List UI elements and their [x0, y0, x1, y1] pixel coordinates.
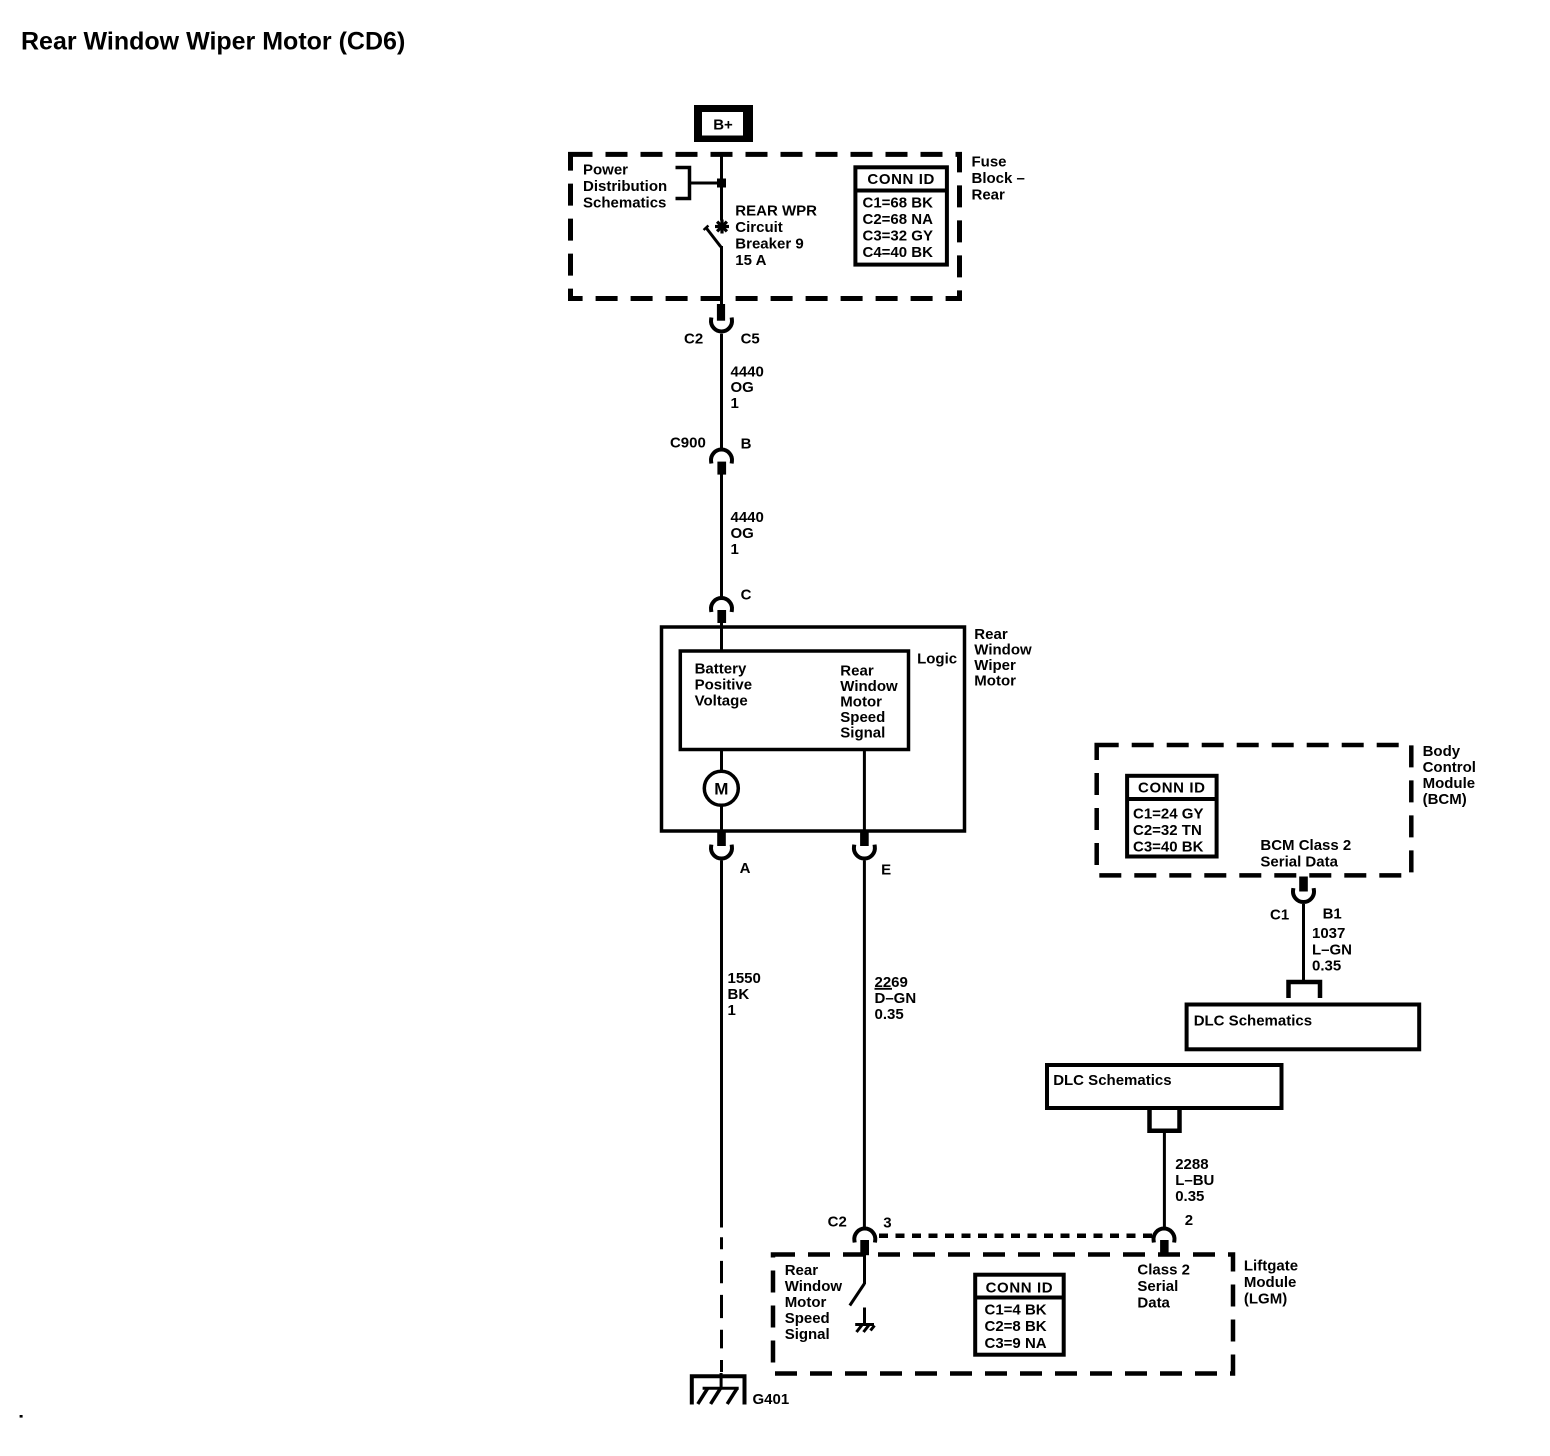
svg-text:4440: 4440: [731, 509, 764, 526]
LGM internal ground: [855, 1308, 874, 1333]
Rear Window Motor Speed Signal label (LGM): [785, 1262, 843, 1343]
Body Control Module (BCM) label: [1423, 743, 1476, 808]
svg-text:Power: Power: [583, 162, 628, 179]
svg-text:0.35: 0.35: [1175, 1188, 1204, 1205]
svg-text:2288: 2288: [1175, 1156, 1208, 1173]
wire label 4440 OG 1 (second): [731, 509, 764, 558]
svg-text:BCM Class 2: BCM Class 2: [1260, 837, 1351, 854]
svg-text:C2=32 TN: C2=32 TN: [1133, 822, 1202, 839]
rear window wiper motor box: [662, 627, 965, 831]
connector C1 pin B1 (bar + cup): [1270, 877, 1342, 924]
svg-text:C4=40 BK: C4=40 BK: [863, 244, 934, 261]
svg-text:1037: 1037: [1312, 925, 1345, 942]
svg-text:Block –: Block –: [972, 170, 1025, 187]
svg-text:C2: C2: [828, 1214, 847, 1231]
svg-text:Signal: Signal: [840, 725, 885, 742]
connector pin 2 (cap + bar): [1154, 1229, 1175, 1253]
DLC Schematics box (upper): [1187, 1005, 1420, 1050]
Rear Window Wiper Motor label: [974, 626, 1032, 690]
svg-text:C2=68 NA: C2=68 NA: [863, 211, 934, 228]
Power Distribution Schematics label: [583, 162, 667, 212]
svg-text:C3=40 BK: C3=40 BK: [1133, 838, 1204, 855]
svg-text:C900: C900: [670, 435, 706, 452]
svg-text:DLC Schematics: DLC Schematics: [1053, 1072, 1171, 1089]
svg-text:L–GN: L–GN: [1312, 942, 1352, 959]
svg-text:G401: G401: [753, 1391, 790, 1408]
DLC Schematics box (lower): [1047, 1065, 1282, 1108]
svg-text:Distribution: Distribution: [583, 178, 667, 195]
Liftgate Module (LGM) label: [1244, 1258, 1298, 1308]
wire box top to logic box: [720, 628, 723, 652]
svg-text:C1=24 GY: C1=24 GY: [1133, 806, 1203, 823]
wire label 1550 BK 1: [728, 970, 761, 1019]
connector C900 pin B (cap + bar): [670, 435, 752, 475]
LGM switch wire: [863, 1255, 866, 1284]
connector pin E (bar + cup): [854, 833, 891, 879]
wire label 2269 D-GN 0.35: [875, 974, 917, 1023]
svg-text:15 A: 15 A: [735, 252, 766, 269]
wire C2/C5 to C900: [720, 334, 723, 450]
svg-text:CONN ID: CONN ID: [867, 171, 935, 188]
svg-text:Positive: Positive: [695, 677, 753, 694]
wire E to LGM connector C2 pin 3: [863, 861, 866, 1229]
svg-text:Battery: Battery: [695, 661, 747, 678]
svg-text:1: 1: [728, 1002, 736, 1019]
svg-text:1: 1: [731, 395, 739, 412]
BCM CONN ID table: [1127, 776, 1217, 857]
svg-text:Module: Module: [1244, 1274, 1297, 1291]
svg-text:Speed: Speed: [785, 1310, 830, 1327]
svg-text:Speed: Speed: [840, 709, 885, 726]
Class 2 Serial Data label: [1137, 1262, 1190, 1312]
wire C bar into motor box: [720, 622, 723, 629]
svg-text:Rear: Rear: [785, 1262, 819, 1279]
off-page staple to DLC schematics: [1289, 982, 1321, 998]
svg-text:CONN ID: CONN ID: [986, 1280, 1054, 1297]
svg-text:Class 2: Class 2: [1137, 1262, 1190, 1279]
circuit breaker CB9 (asterisk + blade): [704, 220, 729, 247]
wire B1 to DLC off-page reference: [1302, 904, 1305, 981]
LGM switch blade: [850, 1284, 865, 1306]
svg-text:M: M: [714, 780, 728, 799]
svg-text:C3=32 GY: C3=32 GY: [863, 228, 933, 245]
svg-text:Body: Body: [1423, 743, 1461, 760]
fuse block CONN ID table: [855, 167, 947, 264]
svg-text:Motor: Motor: [785, 1294, 827, 1311]
svg-text:Serial Data: Serial Data: [1260, 854, 1338, 871]
wire label 2288 L-BU 0.35: [1175, 1156, 1214, 1205]
svg-text:Serial: Serial: [1137, 1278, 1178, 1295]
wire M to box bottom: [720, 805, 723, 832]
svg-text:1550: 1550: [728, 970, 761, 987]
svg-text:Data: Data: [1137, 1295, 1170, 1312]
wire logic to motor M: [720, 750, 723, 773]
svg-text:C1=68 BK: C1=68 BK: [863, 195, 934, 212]
wire label 4440 OG 1: [731, 364, 764, 413]
svg-text:OG: OG: [731, 525, 754, 542]
svg-text:Circuit: Circuit: [735, 219, 783, 236]
off-page staple below DLC schematics: [1150, 1108, 1180, 1131]
motor M circle: [704, 771, 738, 805]
svg-text:C3=9 NA: C3=9 NA: [985, 1335, 1047, 1352]
svg-text:Fuse: Fuse: [972, 154, 1007, 171]
svg-text:4440: 4440: [731, 364, 764, 381]
connector pin C of wiper motor (cap + bar): [711, 587, 752, 624]
svg-text:C1=4 BK: C1=4 BK: [985, 1302, 1047, 1319]
svg-text:3: 3: [883, 1215, 891, 1232]
wire DLC to LGM pin 2: [1163, 1130, 1166, 1228]
svg-text:L–BU: L–BU: [1175, 1172, 1214, 1189]
svg-text:BK: BK: [728, 986, 750, 1003]
svg-text:D–GN: D–GN: [875, 990, 917, 1007]
BCM Class 2 Serial Data label: [1260, 837, 1351, 871]
svg-text:Motor: Motor: [974, 673, 1016, 690]
connector C2/C5 (bar + cup): [684, 304, 760, 348]
svg-text:A: A: [740, 860, 751, 877]
REAR WPR Circuit Breaker 9 15 A label: [735, 203, 817, 270]
svg-text:1: 1: [731, 541, 739, 558]
svg-text:Wiper: Wiper: [974, 657, 1016, 674]
svg-text:Window: Window: [840, 678, 898, 695]
svg-text:2: 2: [1185, 1212, 1193, 1229]
svg-text:REAR WPR: REAR WPR: [735, 203, 817, 220]
connector pin A (bar + cup): [711, 833, 751, 877]
svg-text:Liftgate: Liftgate: [1244, 1258, 1298, 1275]
connector C2 pin 3 (cap + bar): [828, 1214, 892, 1256]
svg-text:Module: Module: [1423, 775, 1476, 792]
svg-text:C: C: [741, 587, 752, 604]
svg-text:E: E: [881, 862, 891, 879]
svg-text:Voltage: Voltage: [695, 693, 748, 710]
liftgate module dashed box: [773, 1255, 1233, 1374]
wire label 1037 L-GN 0.35: [1312, 925, 1352, 975]
svg-text:B+: B+: [713, 117, 733, 134]
svg-text:Rear: Rear: [974, 626, 1008, 643]
svg-text:Rear Window Wiper Motor (CD6): Rear Window Wiper Motor (CD6): [21, 28, 405, 56]
ground G401: [692, 1376, 789, 1408]
svg-text:B: B: [741, 436, 752, 453]
wire B+ to circuit breaker: [720, 152, 723, 221]
wire logic speed signal to box bottom: [863, 750, 866, 833]
body control module dashed box: [1097, 745, 1412, 875]
svg-text:0.35: 0.35: [1312, 958, 1341, 975]
power distribution bracket: [676, 168, 719, 199]
svg-text:C5: C5: [741, 331, 760, 348]
stray mark: [20, 1415, 23, 1418]
svg-text:Signal: Signal: [785, 1326, 830, 1343]
wire A dashed section: [720, 1237, 723, 1372]
fuse block dashed box: [571, 154, 960, 298]
svg-text:Logic: Logic: [917, 651, 957, 668]
svg-text:(BCM): (BCM): [1423, 791, 1467, 808]
Battery Positive Voltage label: [695, 661, 753, 710]
svg-text:Breaker 9: Breaker 9: [735, 236, 803, 253]
svg-text:CONN ID: CONN ID: [1138, 780, 1206, 797]
svg-text:B1: B1: [1323, 906, 1342, 923]
svg-text:C2: C2: [684, 331, 703, 348]
svg-text:C2=8 BK: C2=8 BK: [985, 1318, 1047, 1335]
svg-text:OG: OG: [731, 379, 754, 396]
junction dot on wire: [717, 179, 726, 188]
LGM CONN ID table: [975, 1275, 1063, 1355]
wire A to ground: [720, 861, 723, 1228]
svg-text:DLC Schematics: DLC Schematics: [1194, 1013, 1312, 1030]
svg-text:(LGM): (LGM): [1244, 1291, 1287, 1308]
wire C900 to C: [720, 475, 723, 599]
svg-text:Window: Window: [785, 1278, 843, 1295]
svg-text:0.35: 0.35: [875, 1006, 904, 1023]
wire breaker to connector C2/C5: [720, 246, 723, 305]
svg-text:Schematics: Schematics: [583, 195, 666, 212]
svg-text:C1: C1: [1270, 907, 1289, 924]
Rear Window Motor Speed Signal label (logic): [840, 663, 898, 742]
class 2 serial data dotted line: [879, 1233, 1152, 1238]
svg-text:Control: Control: [1423, 759, 1476, 776]
svg-text:Motor: Motor: [840, 694, 882, 711]
Fuse Block - Rear label: [972, 154, 1025, 204]
svg-text:Rear: Rear: [840, 663, 874, 680]
logic box U1: [680, 651, 908, 750]
svg-text:Window: Window: [974, 641, 1032, 658]
svg-text:Rear: Rear: [972, 187, 1006, 204]
battery feed B+ box: [694, 105, 753, 142]
